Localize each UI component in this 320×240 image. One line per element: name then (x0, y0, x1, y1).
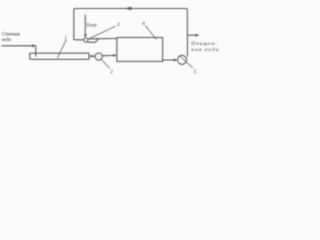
wire: tank 4 to pump 5 (163, 59, 176, 61)
wire: pump 2 to tank 4 (102, 54, 114, 56)
pump P5 (178, 55, 187, 64)
label 2 leader (101, 59, 110, 69)
node: treated water label "Очищенная вода" (191, 41, 219, 53)
pump P2 (95, 53, 102, 60)
wire: inlet drop pipe into channel (35, 46, 37, 57)
wire: chlorine feed arrow (84, 15, 86, 35)
svg-text:вода: вода (2, 38, 11, 43)
svg-text:Очищен-: Очищен- (191, 41, 217, 47)
ejector 3 (mixing chamber circle) (84, 38, 88, 42)
svg-text:1: 1 (64, 35, 67, 41)
contact tank 4 (117, 38, 163, 62)
ejector 3 diffuser cone (88, 39, 99, 43)
wire: treated water outlet arrow (188, 34, 198, 36)
svg-text:5: 5 (194, 69, 197, 75)
label 5 leader (diagonal through pump) (180, 56, 193, 68)
label 4 leader (145, 26, 156, 40)
label 3 leader (89, 26, 116, 39)
label 1 leader (58, 40, 67, 58)
node: wastewater inlet label "Сточная вода" (2, 33, 21, 44)
arrowhead on recycle line pointing left (124, 7, 132, 10)
wire: recycle line (top feedback) (74, 9, 188, 57)
svg-text:4: 4 (142, 21, 145, 27)
wire: ejector outlet to tank 4 (98, 38, 116, 40)
svg-text:ная вода: ная вода (191, 46, 219, 53)
svg-text:Сточная: Сточная (2, 33, 21, 38)
wire: channel to pump 2 (89, 55, 93, 57)
svg-text:Хлор: Хлор (85, 24, 97, 29)
channel (contact flume) 1 (30, 53, 89, 59)
wire: inlet arrow (wastewater feed) (2, 45, 34, 47)
svg-text:2: 2 (110, 69, 113, 75)
